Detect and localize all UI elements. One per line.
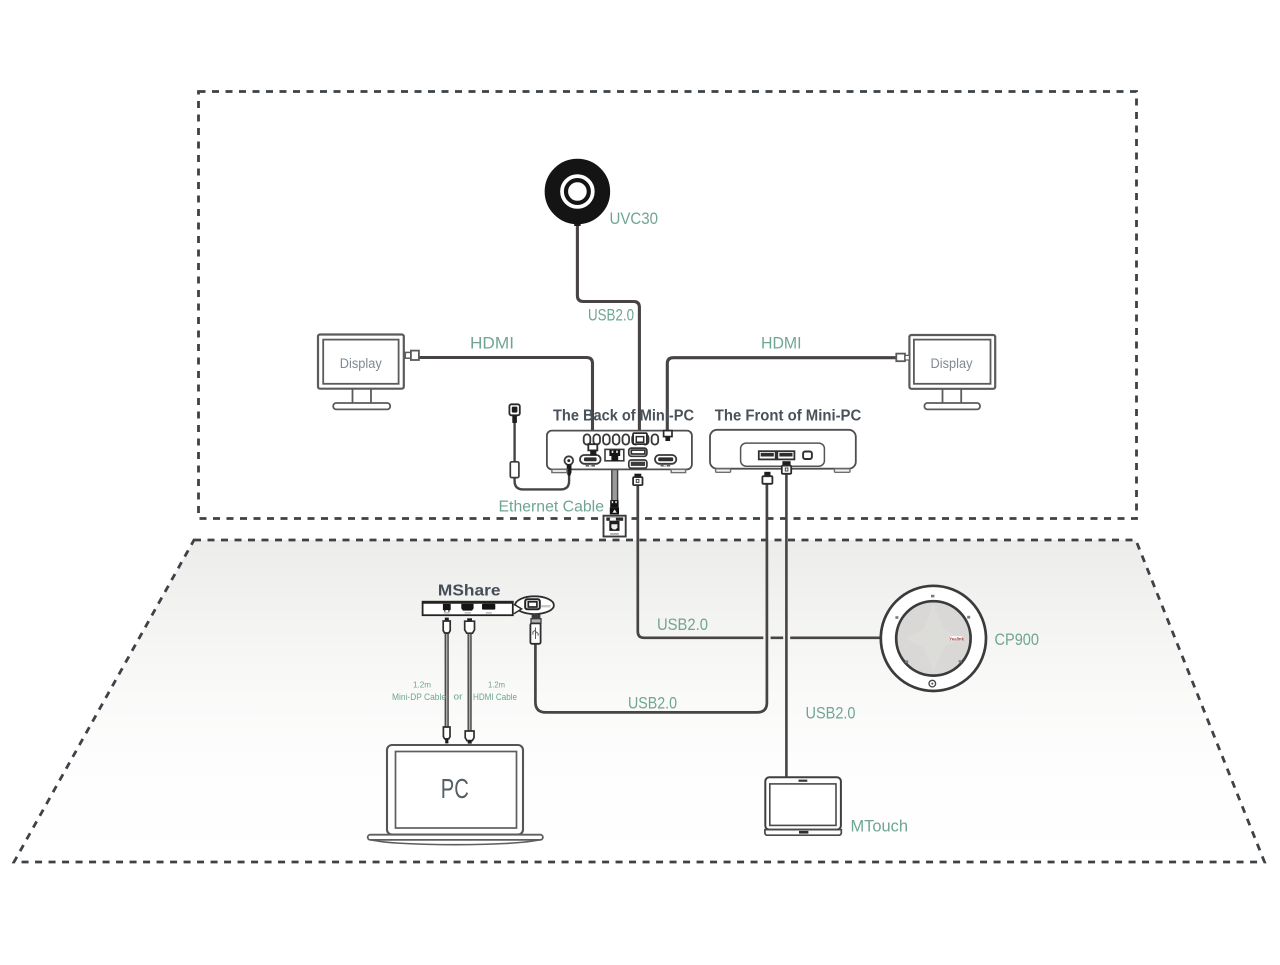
- front button: [803, 452, 812, 460]
- ethernet wall port icon (top of cable): [509, 404, 519, 423]
- svg-text:Yealink: Yealink: [949, 636, 964, 641]
- MShare magnifier oval callout: [514, 596, 554, 614]
- USB plug below back mini-PC (to CP900): [633, 474, 642, 485]
- wire HDMI cable MShare to PC: [468, 633, 472, 732]
- RJ45 plug on LAN cable: [610, 500, 619, 514]
- meeting room dashed rectangle (top): [199, 92, 1137, 519]
- svg-text:Display: Display: [340, 356, 382, 371]
- wire mini-DP cable MShare to PC: [445, 633, 449, 728]
- svg-text:Display: Display: [931, 356, 973, 371]
- USB port upper: [629, 448, 647, 456]
- camera USB plug on top row: [633, 433, 647, 444]
- HDMI port 2 (right): [655, 455, 676, 464]
- svg-text:HDMI: HDMI: [761, 334, 802, 353]
- wire USB2.0 MShare to front mini-PC: [535, 482, 767, 712]
- vent holes row: [584, 434, 658, 444]
- svg-text:USB2.0: USB2.0: [628, 694, 677, 713]
- ethernet wall outlet box: [604, 516, 626, 537]
- USB port lower: [629, 460, 647, 468]
- front USB port 2: [777, 451, 794, 459]
- svg-text:or: or: [454, 692, 463, 702]
- svg-text:The Back of Mini-PC: The Back of Mini-PC: [553, 408, 694, 425]
- svg-text:MShare: MShare: [438, 583, 501, 600]
- USB plug below port2: [782, 461, 790, 466]
- USB type-B plug under oval: [530, 614, 541, 644]
- HDMI port 1 (left) with plug: [580, 455, 601, 464]
- power round port: [565, 456, 574, 465]
- feet: [716, 469, 731, 473]
- MShare bar: [422, 602, 513, 616]
- wire ethernet wall port to power/LAN round port: [515, 422, 570, 489]
- wire USB2.0 camera to back mini-PC: [577, 222, 639, 434]
- svg-text:Mini-DP Cable: Mini-DP Cable: [392, 692, 446, 702]
- svg-text:The Front of Mini-PC: The Front of Mini-PC: [715, 408, 862, 425]
- display left monitor: [318, 335, 419, 410]
- HDMI plug bottom at PC: [465, 731, 474, 744]
- camera UVC30: [552, 167, 602, 227]
- svg-text:Ethernet Cable: Ethernet Cable: [499, 499, 605, 516]
- MTouch panel: [765, 777, 841, 835]
- front USB port 1: [759, 451, 776, 459]
- svg-text:1.2m: 1.2m: [488, 680, 505, 690]
- svg-text:USB2.0: USB2.0: [588, 306, 634, 325]
- svg-text:MTouch: MTouch: [851, 816, 909, 835]
- svg-text:PC: PC: [441, 773, 469, 804]
- svg-text:UVC30: UVC30: [610, 209, 659, 228]
- svg-text:HDMI: HDMI: [586, 464, 595, 468]
- mini-DP plug bottom at PC: [443, 727, 450, 743]
- svg-text:USB2.0: USB2.0: [657, 615, 708, 634]
- LAN port with ethernet plug: [605, 449, 624, 460]
- display right monitor: [896, 335, 995, 409]
- wire HDMI left display to back mini-PC: [417, 358, 593, 447]
- svg-text:HDMI: HDMI: [470, 334, 514, 353]
- wire USB2.0 front mini-PC to MTouch: [785, 472, 788, 778]
- ethernet cable inline plug (white rectangle): [510, 462, 519, 478]
- right HDMI wire plug on top edge: [664, 431, 672, 437]
- wire HDMI right display to back mini-PC: [667, 358, 897, 432]
- front of mini-PC box: [710, 430, 856, 484]
- USB plug below port1: [764, 472, 770, 477]
- PC laptop: [368, 745, 543, 845]
- svg-text:1.2m: 1.2m: [413, 680, 431, 690]
- power plug (black): [567, 464, 572, 476]
- wire USB2.0 back mini-PC to CP900: [638, 484, 881, 638]
- wire ethernet LAN port to wall outlet box (gray sheath): [612, 461, 618, 501]
- svg-text:CP900: CP900: [995, 630, 1040, 649]
- feet: [552, 469, 567, 472]
- mini-DP plug top (cable A): [443, 618, 450, 633]
- table dashed trapezoid (bottom): [14, 540, 1265, 862]
- svg-text:USB2.0: USB2.0: [806, 704, 856, 723]
- CP900 speakerphone: [881, 586, 986, 691]
- back of mini-PC box: [547, 431, 692, 476]
- svg-text:HDMI Cable: HDMI Cable: [473, 692, 517, 702]
- svg-text:HDMI: HDMI: [661, 464, 670, 468]
- HDMI plug top (cable B): [465, 618, 475, 633]
